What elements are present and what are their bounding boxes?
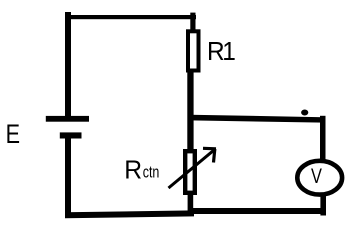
svg-text:E: E (6, 120, 20, 150)
svg-text:V: V (311, 164, 322, 187)
svg-text:R1: R1 (207, 37, 235, 66)
svg-text:ctn: ctn (143, 164, 160, 182)
svg-text:R: R (124, 156, 142, 185)
